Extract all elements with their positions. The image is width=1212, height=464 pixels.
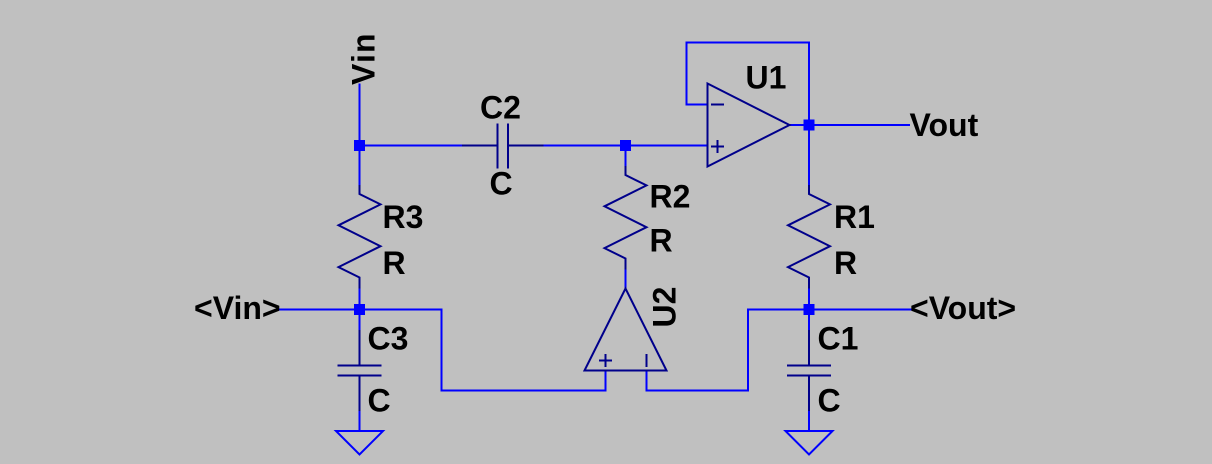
wire R2 bottom to U2 output apex <box>625 269 627 290</box>
svg-text:R: R <box>834 245 857 281</box>
wire U1 output apex to node <box>790 124 810 126</box>
wire bottom run to U2 +in <box>442 390 606 392</box>
op-amp U1 plus marker <box>712 141 723 152</box>
svg-text:Vin: Vin <box>346 32 382 85</box>
node B junction <box>620 140 631 151</box>
wire U1 feedback left vertical <box>686 43 688 105</box>
wire C3 bottom to ground <box>359 410 361 431</box>
wire Vin label to node A through R3 top <box>359 85 361 187</box>
wire U2 -in stub <box>646 371 648 391</box>
capacitor C3 body <box>339 331 381 410</box>
op-amp U2 triangle <box>585 289 667 371</box>
wire U1 -in stub <box>687 104 708 106</box>
wire R3 bottom to node <Vin> and C3 top <box>359 288 361 332</box>
svg-text:Vout: Vout <box>910 107 979 143</box>
op-amp U1 minus marker <box>712 104 723 106</box>
svg-text:<Vout>: <Vout> <box>910 290 1016 326</box>
resistor R1 body <box>788 186 830 288</box>
svg-text:C3: C3 <box>368 321 409 357</box>
resistor R2 body <box>605 167 647 269</box>
svg-text:U1: U1 <box>746 60 787 96</box>
wire U2 -in run right <box>647 390 749 392</box>
wire output node to Vout label <box>809 124 909 126</box>
wire C2 right to node B to U1 +in <box>543 145 708 147</box>
wire <Vin> label to node, to corner <box>278 309 442 311</box>
svg-text:R3: R3 <box>383 199 424 235</box>
wire <Vout> row through node to label <box>748 309 911 311</box>
svg-text:C1: C1 <box>818 321 859 357</box>
capacitor C2 body <box>463 125 543 168</box>
wire U1 feedback top <box>687 42 810 44</box>
wire node A to C2 left <box>360 145 464 147</box>
node <Vout> junction <box>804 304 815 315</box>
ground symbol right <box>786 431 833 455</box>
ground symbol left <box>336 431 383 455</box>
svg-text:R2: R2 <box>650 179 691 215</box>
wire R1 bottom through node to C1 top <box>808 288 810 332</box>
svg-text:C2: C2 <box>480 90 521 126</box>
wire U1 feedback right down through output node to R1 <box>808 43 810 187</box>
node A junction <box>354 140 365 151</box>
svg-text:C: C <box>368 383 391 419</box>
svg-text:R: R <box>383 245 406 281</box>
wire node B to R2 top <box>625 146 627 168</box>
op-amp U2 minus marker <box>646 355 648 366</box>
wire U2 +in stub <box>605 371 607 391</box>
op-amp U2 plus marker <box>600 355 611 366</box>
wire up to <Vout> row <box>747 310 749 391</box>
svg-text:C: C <box>818 383 841 419</box>
capacitor C1 body <box>788 331 830 410</box>
wire C1 bottom to ground <box>808 410 810 431</box>
wire corner down <box>441 310 443 391</box>
node <Vin> junction <box>354 304 365 315</box>
op-amp U1 triangle <box>708 84 790 167</box>
svg-text:R: R <box>650 223 673 259</box>
resistor R3 body <box>339 186 381 288</box>
svg-text:<Vin>: <Vin> <box>194 290 281 326</box>
svg-text:U2: U2 <box>647 287 683 328</box>
node Vout junction <box>804 120 815 131</box>
svg-text:R1: R1 <box>834 199 875 235</box>
svg-text:C: C <box>490 166 513 202</box>
